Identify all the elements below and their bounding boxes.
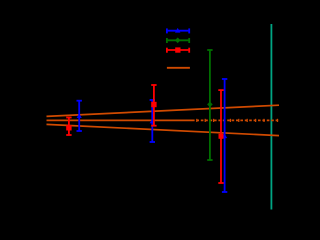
model line L3 (bottom, orange) <box>47 124 280 135</box>
blue errorbar point B2 (triangle) <box>150 100 155 142</box>
model line L2 (middle, orange; solid then sparse dashes) <box>47 119 280 122</box>
green errorbar point G1 (diamond) <box>207 50 213 160</box>
blue errorbar point B1 (triangle) <box>77 101 82 131</box>
red errorbar point R1 (square) <box>66 118 71 136</box>
legend entry 4: orange line sample <box>167 67 190 69</box>
model line L1 (top, orange) <box>47 105 280 116</box>
red errorbar point R3 (square) <box>218 90 223 183</box>
legend entry 1: blue errorbar sample <box>167 28 189 34</box>
blue errorbar point B3 (triangle) <box>222 79 227 192</box>
legend entry 2: green errorbar sample <box>167 38 189 44</box>
red errorbar point R2 (square) <box>151 85 156 126</box>
teal vertical line (limit marker) <box>270 24 272 210</box>
legend entry 3: red errorbar sample <box>167 47 189 52</box>
